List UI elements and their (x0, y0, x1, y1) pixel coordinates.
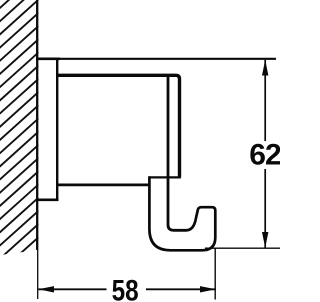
extension line right (58 dim) (214, 248, 216, 300)
58 arrow right (200, 286, 216, 292)
underside of right arm (149, 176, 180, 178)
58 dimension line (horizontal, broken for text) (38, 288, 106, 290)
body bottom line (57, 183, 150, 186)
wall face line (36, 0, 38, 250)
wall hatching (0, 0, 39, 302)
hook tip (186, 207, 215, 230)
wall plate bottom (36, 199, 59, 202)
wall plate front face (56, 58, 58, 202)
J-hook inner contour + stem inner line (168, 76, 187, 231)
svg-text:58: 58 (112, 274, 139, 302)
58 arrow left (38, 286, 54, 292)
62 dimension line (vertical, broken for text) (264, 60, 266, 141)
svg-text:62: 62 (249, 139, 280, 172)
J-hook outer contour (149, 176, 215, 250)
extension line bottom (62 dim) (205, 247, 280, 249)
wall extension line (58 dim, left) (37, 250, 39, 299)
top line + extension (62 dim, top) (36, 58, 276, 60)
62 arrow up (262, 60, 268, 76)
62 arrow down (262, 232, 268, 248)
hook arm top (thick) + right face (57, 75, 180, 177)
